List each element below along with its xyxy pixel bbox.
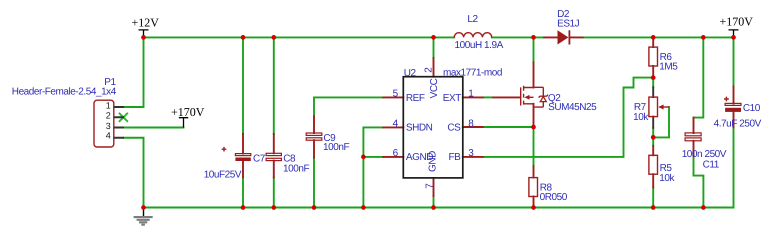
svg-text:6: 6 [393,148,399,159]
svg-text:FB: FB [449,152,462,163]
svg-text:CS: CS [447,122,461,133]
svg-text:GND: GND [428,151,439,172]
svg-text:3: 3 [106,121,111,131]
svg-text:8: 8 [468,118,474,129]
svg-text:0R050: 0R050 [540,192,568,203]
svg-text:4: 4 [393,118,399,129]
svg-text:10uF25V: 10uF25V [204,170,242,181]
svg-text:2: 2 [424,67,435,73]
svg-text:3: 3 [468,148,474,159]
svg-text:L2: L2 [467,14,478,25]
svg-text:7: 7 [425,183,436,189]
svg-text:100nF: 100nF [283,163,309,174]
svg-text:100nF: 100nF [323,142,349,153]
svg-text:100uH 1.9A: 100uH 1.9A [455,40,504,51]
svg-text:C11: C11 [703,159,720,170]
svg-text:5: 5 [393,89,399,100]
svg-text:C7: C7 [253,153,266,164]
svg-text:1M5: 1M5 [659,62,678,73]
svg-text:REF: REF [406,93,425,104]
svg-text:+170V: +170V [171,105,205,119]
svg-text:10k: 10k [659,173,675,184]
svg-text:ES1J: ES1J [557,19,580,30]
svg-text:1: 1 [468,89,474,100]
svg-text:SHDN: SHDN [406,122,433,133]
svg-text:4: 4 [106,131,111,141]
svg-text:EXT: EXT [443,93,461,104]
svg-text:100n 250V: 100n 250V [682,149,727,160]
svg-text:Header-Female-2.54_1x4: Header-Female-2.54_1x4 [12,87,117,98]
svg-text:+170V: +170V [720,15,754,29]
svg-text:SUM45N25: SUM45N25 [548,102,597,113]
svg-text:+12V: +12V [132,15,160,29]
svg-text:4.7uF 250V: 4.7uF 250V [714,118,762,129]
svg-text:VCC: VCC [429,78,440,98]
svg-text:2: 2 [106,111,111,121]
svg-text:C10: C10 [743,103,761,114]
svg-text:U2: U2 [404,68,417,79]
svg-text:1: 1 [106,101,111,111]
svg-text:10k: 10k [633,112,649,123]
svg-text:max1771-mod: max1771-mod [443,68,502,79]
